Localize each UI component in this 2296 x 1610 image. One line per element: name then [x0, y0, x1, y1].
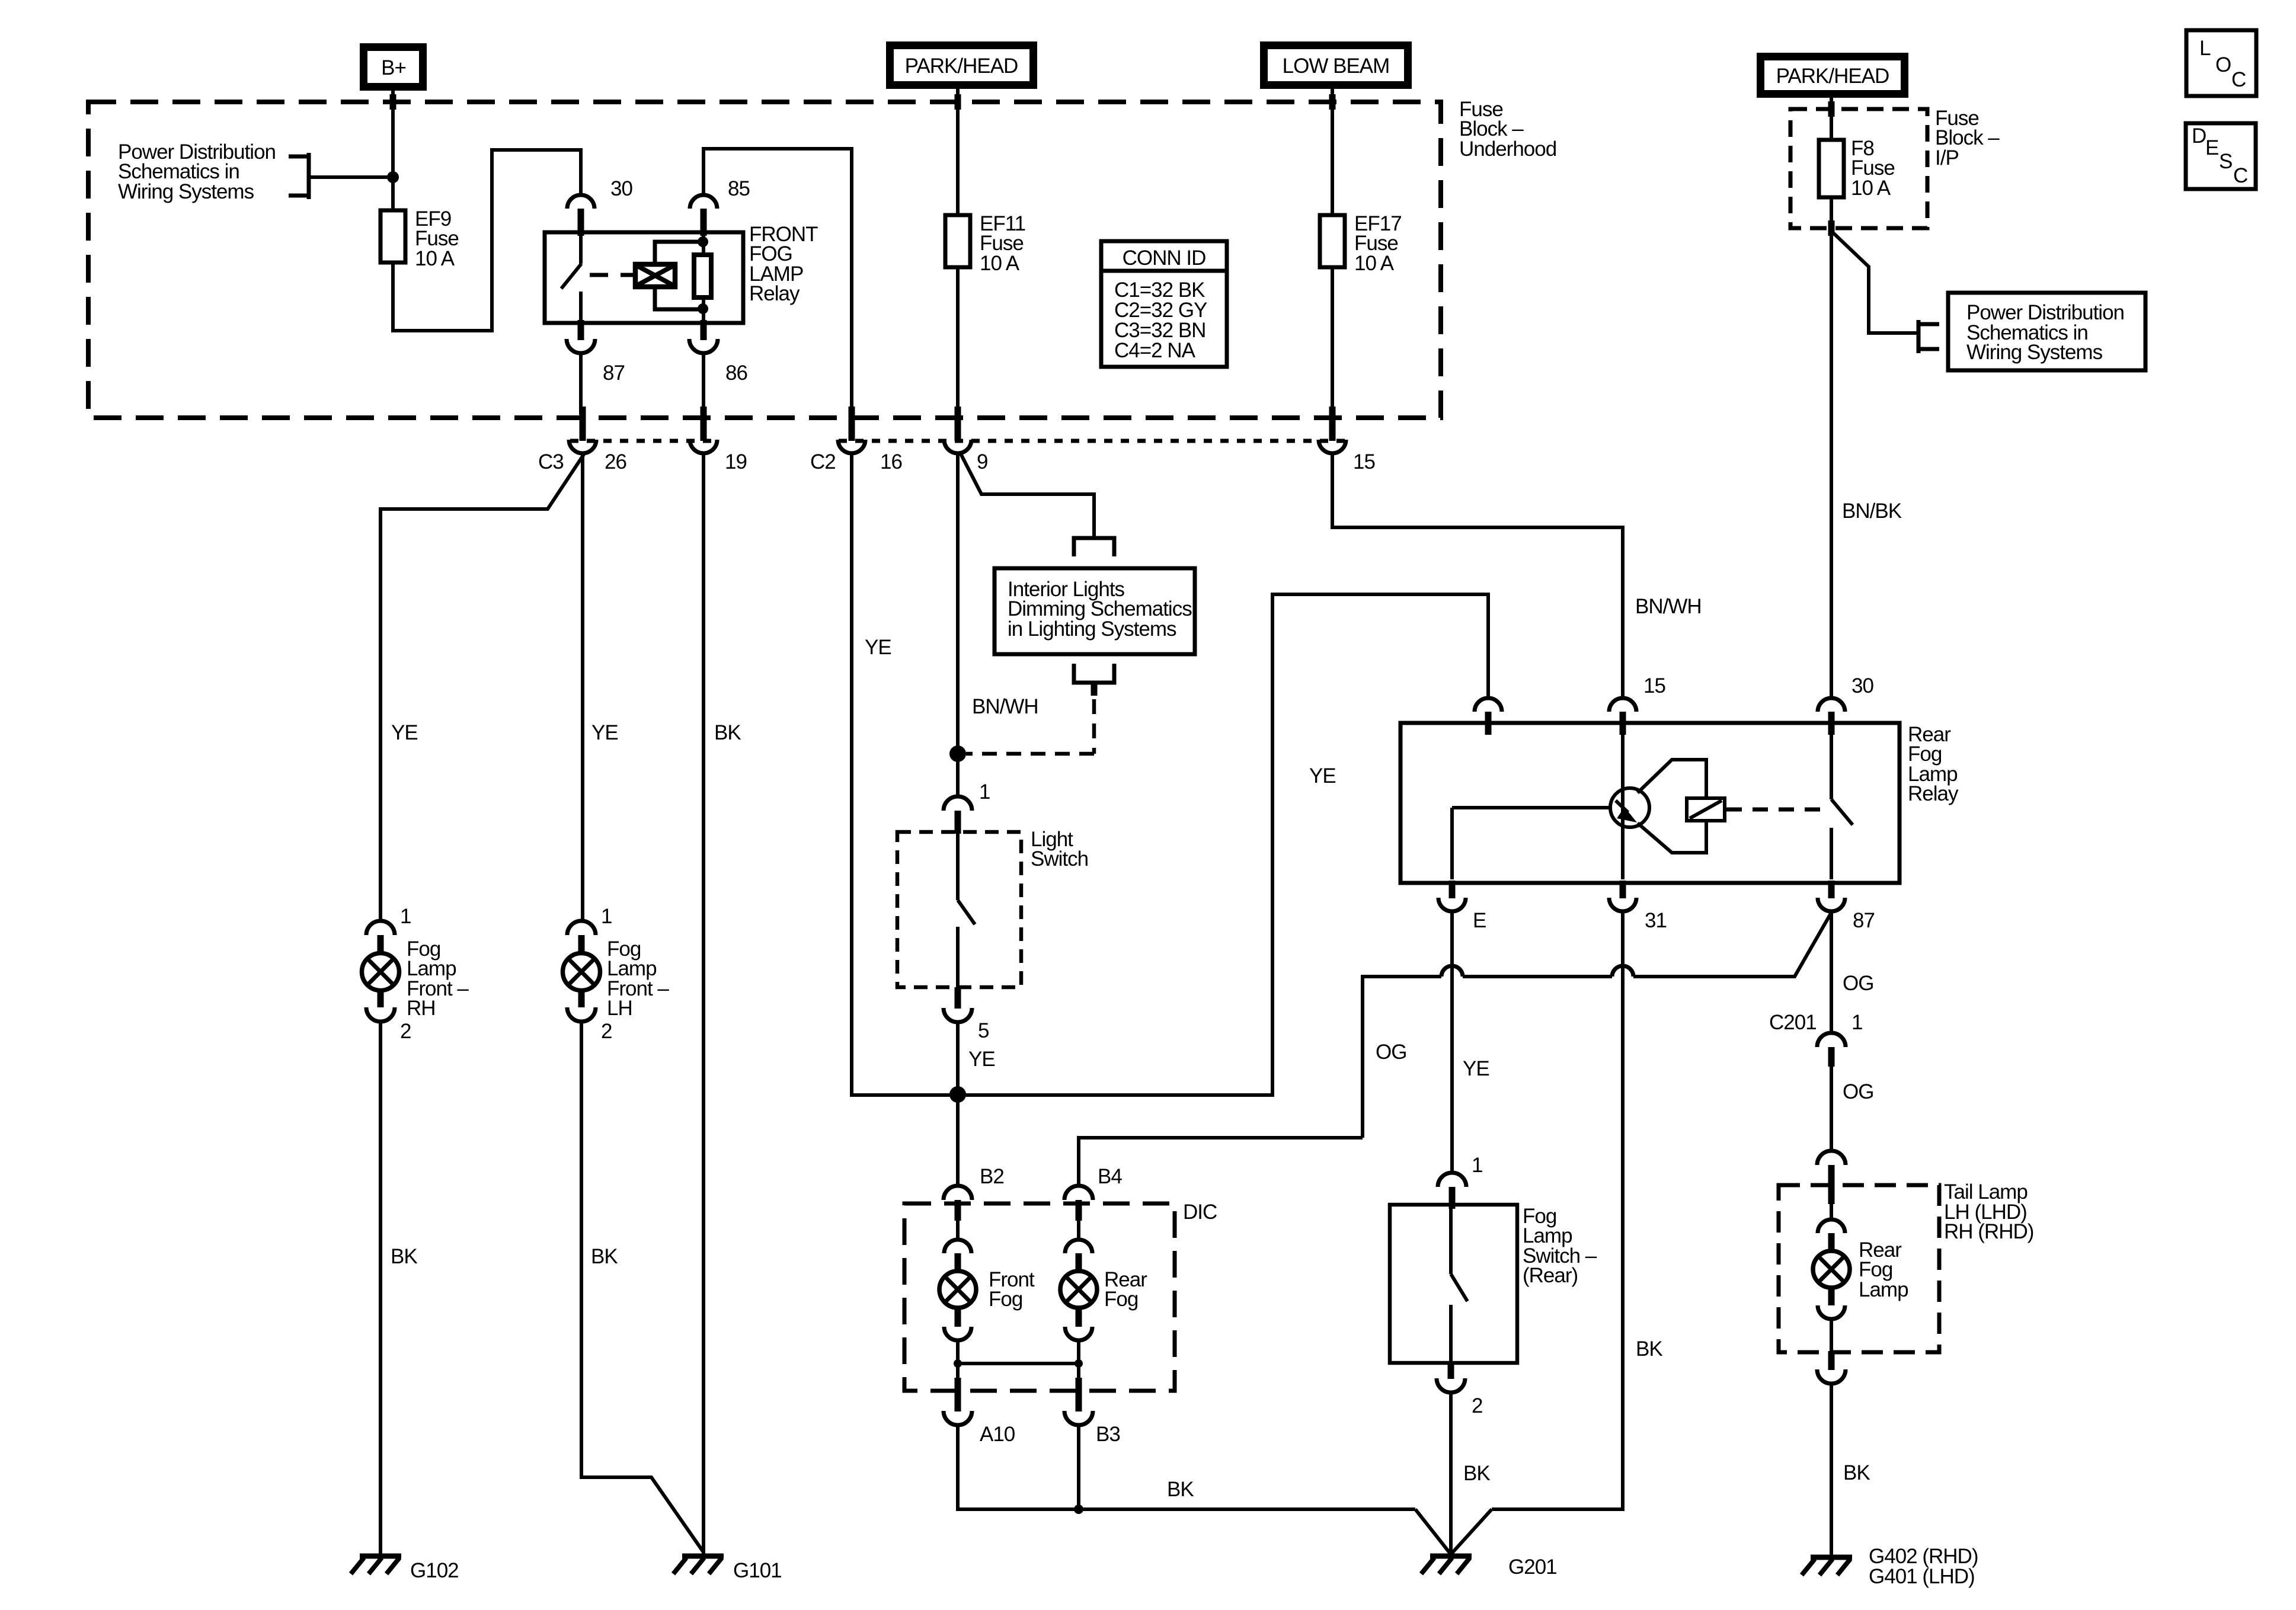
rear relay dashed actuator link	[1726, 808, 1824, 812]
svg-text:C: C	[2233, 164, 2247, 187]
label Power Distribution Schematics in Wiring Systems (left)	[118, 140, 276, 203]
fuse EF11 10A	[945, 215, 970, 267]
wire switch 2 BK to ground	[1449, 1393, 1453, 1555]
svg-text:Fog: Fog	[1104, 1288, 1138, 1311]
front relay pin85 internal line	[702, 234, 705, 321]
rear fog lamp connector (inside box top)	[1818, 1204, 1845, 1252]
rear fog indicator bulb	[1060, 1271, 1097, 1308]
interior lights dimming box	[994, 568, 1195, 654]
node BK bus at B3	[1074, 1505, 1083, 1514]
fork connector to interior lights (top)	[1074, 538, 1114, 556]
svg-text:15: 15	[1353, 450, 1375, 473]
node DIC bus left	[954, 1359, 962, 1368]
rear fog lamp relay box	[1400, 723, 1900, 883]
rear relay transistor driver	[1452, 726, 1706, 879]
svg-text:RH: RH	[407, 997, 436, 1020]
wire pin 87 down to C201 (OG)	[1830, 911, 1833, 1033]
wire junction to left bracket	[311, 175, 393, 179]
svg-text:I/P: I/P	[1935, 146, 1959, 169]
connector pin 85 of front relay	[690, 177, 750, 236]
connector pin 87 of rear relay	[1818, 881, 1875, 932]
svg-text:Relay: Relay	[1908, 782, 1959, 805]
label Fog Lamp Front - RH	[407, 937, 469, 1020]
light switch contacts	[958, 834, 975, 988]
dashed BN/WH wire from interior lights to junction	[966, 699, 1094, 754]
svg-text:PARK/HEAD: PARK/HEAD	[905, 55, 1018, 78]
DIC internal ground bus	[958, 1362, 1079, 1365]
connector B3	[1064, 1378, 1120, 1446]
fog lamp front LH bulb	[563, 953, 600, 991]
node coil bottom	[698, 303, 708, 314]
svg-text:YE: YE	[968, 1048, 995, 1071]
wire pin 86 down to connector row	[702, 353, 705, 415]
front relay switch contacts	[561, 234, 581, 321]
tail lamp dashed box	[1779, 1185, 1939, 1352]
svg-text:DIC: DIC	[1183, 1201, 1217, 1224]
svg-text:BN/BK: BN/BK	[1842, 500, 1902, 523]
svg-text:10 A: 10 A	[1851, 177, 1891, 200]
wire PARK/HEAD right into IP fuse block	[1830, 94, 1833, 140]
node junction YE	[949, 1086, 966, 1103]
fog lamp front RH bulb	[362, 953, 399, 991]
wire LOW BEAM to EF17	[1331, 85, 1334, 215]
wire C3 26 down to fog lamp LH	[581, 453, 584, 922]
svg-text:YE: YE	[1309, 764, 1336, 788]
front relay coil box with X	[635, 264, 675, 287]
wire PARK/HEAD left to EF11	[956, 85, 960, 215]
wire pin 31 down to ground G201	[1451, 911, 1623, 1554]
label Tail Lamp LH (LHD) RH (RHD)	[1944, 1180, 2033, 1243]
svg-text:G102: G102	[410, 1559, 459, 1582]
light switch dashed box	[897, 832, 1021, 987]
fuse F8 10A	[1819, 140, 1844, 197]
svg-text:OG: OG	[1843, 972, 1873, 995]
label FRONT FOG LAMP Relay	[749, 223, 818, 305]
svg-text:9: 9	[977, 450, 987, 473]
wire B+ to junction and EF9	[391, 87, 395, 210]
svg-text:in Lighting Systems: in Lighting Systems	[1008, 617, 1176, 641]
wire B4 from OG loop	[1079, 1138, 1363, 1187]
label Interior Lights Dimming Schematics in Lighting Systems	[1008, 578, 1192, 641]
node junction at B+ feed	[387, 171, 399, 183]
svg-text:26: 26	[605, 450, 626, 473]
label Light Switch	[1031, 828, 1088, 870]
svg-text:31: 31	[1645, 909, 1667, 932]
svg-text:A10: A10	[980, 1423, 1015, 1446]
svg-text:BK: BK	[1463, 1462, 1490, 1485]
connector C201 pin 1	[1769, 1011, 1862, 1067]
svg-text:1: 1	[601, 905, 612, 928]
connector pin 30 of rear relay	[1818, 674, 1873, 735]
connector pin 86 of front relay	[689, 320, 747, 385]
wire pin E down to fog lamp switch	[1450, 911, 1454, 1174]
fork connector from interior lights (bottom)	[1074, 664, 1114, 696]
svg-text:BK: BK	[1167, 1478, 1194, 1501]
wire 19 BK down to ground G101	[702, 453, 705, 1555]
LOC reference box	[2186, 30, 2256, 96]
svg-text:BK: BK	[1636, 1337, 1662, 1361]
svg-text:(Rear): (Rear)	[1523, 1264, 1578, 1287]
label Front Fog	[989, 1268, 1035, 1311]
connector pin 19	[690, 406, 747, 473]
ground G101	[673, 1556, 782, 1582]
connector 1 fog lamp switch	[1438, 1154, 1482, 1209]
svg-text:BN/WH: BN/WH	[1635, 595, 1702, 618]
svg-text:2: 2	[601, 1020, 612, 1043]
svg-text:BK: BK	[591, 1245, 618, 1268]
svg-text:BK: BK	[714, 721, 741, 744]
front relay coil parallel wires	[655, 242, 702, 309]
fuse EF17 10A	[1320, 215, 1345, 267]
wire branch from connector 9 to interior lights fork	[960, 453, 1094, 536]
node junction BN/WH	[949, 745, 966, 762]
label Rear Fog Lamp Relay	[1908, 723, 1959, 805]
svg-text:2: 2	[400, 1020, 411, 1043]
node coil top	[698, 236, 708, 247]
svg-text:87: 87	[1853, 909, 1875, 932]
front fog lamp relay box	[545, 232, 743, 323]
svg-text:OG: OG	[1376, 1041, 1406, 1064]
wire connector 15 to rear relay pin 15 (BN/WH)	[1332, 453, 1623, 699]
wire connector 5 to YE junction	[956, 1022, 960, 1095]
wire OG from pin 87 to B4 loop with crossovers	[1363, 913, 1831, 1138]
svg-text:10 A: 10 A	[980, 252, 1020, 275]
front fog indicator bulb	[939, 1271, 976, 1308]
svg-text:B3: B3	[1096, 1423, 1120, 1446]
svg-text:86: 86	[725, 361, 747, 385]
connector pin 31 of rear relay	[1609, 881, 1667, 932]
front fog indicator lower connector	[944, 1307, 971, 1363]
label EF17 Fuse 10 A	[1354, 212, 1402, 275]
svg-text:RH (RHD): RH (RHD)	[1944, 1220, 2033, 1243]
wire connector 9 down (BN/WH)	[956, 453, 960, 797]
connector 1 light switch	[944, 780, 990, 834]
label Rear Fog	[1104, 1268, 1147, 1311]
svg-text:Switch: Switch	[1031, 847, 1088, 870]
DIC dashed box	[904, 1204, 1175, 1391]
connector pin 87 of front relay	[567, 320, 625, 385]
node DIC bus right	[1075, 1359, 1083, 1368]
label Fog Lamp Switch - (Rear)	[1523, 1205, 1597, 1287]
svg-text:C3: C3	[538, 450, 564, 473]
svg-text:Wiring Systems: Wiring Systems	[1966, 341, 2103, 364]
label Fog Lamp Front - LH	[607, 937, 669, 1020]
label Fuse Block - Underhood	[1459, 98, 1556, 161]
ground G402/G401	[1802, 1545, 1978, 1588]
rear fog lamp lower connector	[1817, 1287, 1846, 1384]
wire EF9 to relay pin 30	[393, 150, 581, 331]
svg-text:L: L	[2199, 37, 2211, 60]
svg-text:Lamp: Lamp	[1859, 1278, 1908, 1301]
svg-text:Wiring Systems: Wiring Systems	[118, 180, 254, 203]
label EF9 Fuse 10 A	[415, 207, 459, 270]
label F8 Fuse 10 A	[1851, 137, 1895, 200]
DESC reference box	[2186, 123, 2256, 189]
label EF11 Fuse 10 A	[980, 212, 1025, 275]
svg-text:G201: G201	[1508, 1555, 1557, 1579]
wire branch to right power distribution bracket	[1831, 231, 1917, 333]
PARK/HEAD terminal box (left)	[890, 46, 1034, 85]
wire fog lamp LH BK to ground join	[581, 1021, 703, 1551]
connector pin 30 of front relay	[567, 177, 632, 236]
fog lamp switch box	[1390, 1205, 1517, 1363]
svg-text:2: 2	[1472, 1394, 1482, 1417]
wire YE loop from connector 16 through junction to rear relay	[852, 453, 1488, 1095]
svg-text:E: E	[1473, 909, 1486, 932]
svg-text:D: D	[2192, 124, 2206, 148]
svg-text:16: 16	[880, 450, 902, 473]
fuse block IP dashed box	[1790, 109, 1927, 228]
label Fuse Block - I/P	[1935, 107, 2000, 169]
svg-text:LOW BEAM: LOW BEAM	[1283, 55, 1390, 78]
svg-text:BN/WH: BN/WH	[972, 695, 1038, 718]
front fog indicator connector	[944, 1218, 971, 1272]
rear relay emitter wire to pin E	[1450, 808, 1454, 879]
connector pin 15	[1319, 406, 1375, 473]
fog lamp front RH connector 2	[366, 990, 411, 1043]
svg-text:OG: OG	[1843, 1080, 1873, 1103]
svg-text:B4: B4	[1098, 1165, 1122, 1188]
svg-text:PARK/HEAD: PARK/HEAD	[1776, 65, 1889, 88]
fog lamp front LH connector 1	[567, 905, 612, 954]
PARK/HEAD terminal box (right)	[1761, 57, 1905, 94]
svg-text:85: 85	[728, 177, 750, 200]
connector C2 pin 16	[810, 406, 902, 473]
svg-text:15: 15	[1643, 674, 1665, 697]
off-page bracket (right power distribution)	[1918, 320, 1939, 353]
rear fog indicator connector	[1065, 1218, 1092, 1272]
svg-text:1: 1	[1851, 1011, 1862, 1034]
svg-text:Fog: Fog	[989, 1288, 1022, 1311]
svg-text:5: 5	[978, 1019, 989, 1042]
fuse block underhood dashed box	[88, 102, 1441, 418]
svg-text:1: 1	[1472, 1154, 1482, 1177]
svg-text:CONN ID: CONN ID	[1123, 247, 1206, 270]
rear fog lamp bulb	[1813, 1251, 1850, 1288]
connector pin 15 of rear relay	[1609, 674, 1665, 735]
wire A10 B3 BK bus to ground G201	[958, 1425, 1451, 1554]
rear relay input pin (unlabeled)	[1475, 698, 1502, 735]
svg-text:YE: YE	[591, 721, 618, 744]
wire pin 85 feed from light switch circuit	[703, 149, 852, 415]
ground G102	[351, 1556, 459, 1582]
front relay resistor	[694, 255, 711, 297]
svg-text:E: E	[2205, 136, 2218, 159]
svg-text:Relay: Relay	[749, 282, 800, 305]
svg-text:C: C	[2231, 68, 2246, 91]
connector pin 9	[944, 406, 987, 473]
svg-text:C2: C2	[810, 450, 836, 473]
rear fog indicator lower connector	[1065, 1307, 1092, 1363]
svg-text:C4=2 NA: C4=2 NA	[1114, 339, 1196, 362]
wire F8 to rear relay pin 30 (BN/BK)	[1830, 197, 1833, 698]
svg-text:BK: BK	[391, 1245, 417, 1268]
B+ terminal box	[364, 47, 423, 87]
wire C3 26 branch to fog lamp RH	[380, 454, 584, 922]
off-page bracket (left power distribution)	[289, 153, 309, 199]
label Power Distribution Schematics in Wiring Systems (right)	[1966, 301, 2124, 364]
svg-text:B+: B+	[381, 56, 406, 79]
connector A10	[944, 1378, 1015, 1446]
rear relay switch	[1831, 726, 1853, 879]
svg-text:S: S	[2219, 150, 2232, 173]
fog lamp front LH connector 2	[567, 990, 612, 1043]
wire DIC bus down to B3	[1077, 1363, 1080, 1387]
wire rear fog lamp BK to ground	[1830, 1384, 1833, 1558]
svg-text:1: 1	[400, 905, 411, 928]
wire C201 down to tail lamp (OG)	[1830, 1067, 1833, 1151]
svg-text:B2: B2	[980, 1165, 1004, 1188]
svg-text:G401 (LHD): G401 (LHD)	[1869, 1565, 1975, 1588]
connector B2	[944, 1165, 1004, 1221]
connector pin E of rear relay	[1438, 881, 1486, 932]
svg-text:19: 19	[725, 450, 747, 473]
LOW BEAM terminal box	[1264, 46, 1408, 85]
fog lamp switch contacts	[1451, 1206, 1467, 1361]
svg-text:G101: G101	[733, 1559, 782, 1582]
connector 5 light switch	[944, 987, 989, 1042]
svg-text:C201: C201	[1769, 1011, 1817, 1034]
svg-text:87: 87	[603, 361, 625, 385]
svg-text:1: 1	[979, 780, 990, 804]
svg-text:30: 30	[1851, 674, 1873, 697]
rear relay coil	[1687, 798, 1725, 821]
wire pin 87 down to connector row	[579, 353, 583, 415]
wire EF17 to connector 15	[1331, 267, 1334, 415]
ground G201	[1421, 1555, 1557, 1579]
svg-text:BK: BK	[1843, 1461, 1870, 1484]
connector above tail lamp	[1817, 1151, 1846, 1204]
svg-text:Underhood: Underhood	[1459, 137, 1556, 161]
svg-text:YE: YE	[865, 636, 891, 659]
svg-text:10 A: 10 A	[415, 247, 455, 270]
CONN ID table	[1101, 241, 1227, 367]
svg-text:YE: YE	[391, 721, 418, 744]
wire EF11 to connector 9	[956, 267, 960, 415]
wire fog lamp RH BK to ground	[379, 1021, 382, 1555]
label Rear Fog Lamp	[1859, 1238, 1908, 1301]
connector C3 pin 26	[538, 406, 626, 473]
svg-text:LH: LH	[607, 997, 632, 1020]
connector B4	[1064, 1165, 1122, 1221]
wire DIC bus down to A10	[956, 1363, 960, 1387]
svg-text:YE: YE	[1463, 1057, 1489, 1080]
fog lamp front RH connector 1	[366, 905, 411, 954]
wire YE junction down to connector B2	[956, 1095, 960, 1187]
svg-text:O: O	[2215, 53, 2231, 76]
connector 2 fog lamp switch	[1437, 1363, 1482, 1417]
svg-text:30: 30	[610, 177, 632, 200]
power distribution reference box (right)	[1948, 293, 2145, 370]
connector row dotted harness line	[570, 439, 1346, 443]
svg-text:10 A: 10 A	[1354, 252, 1395, 275]
fuse EF9 10A	[380, 210, 405, 263]
front relay dashed actuator link	[590, 273, 634, 277]
